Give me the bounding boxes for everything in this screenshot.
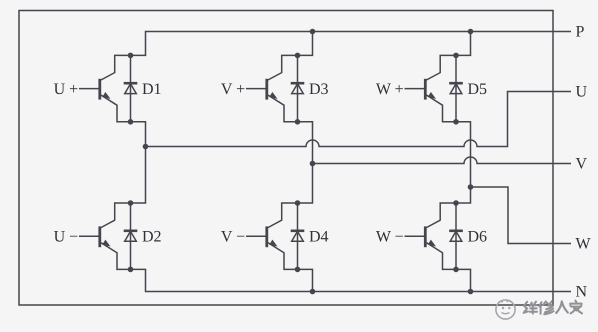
node: W output tap — [468, 184, 474, 190]
node: W+ collector junction — [453, 53, 459, 59]
wire: V- emitter to N rail — [298, 269, 313, 291]
svg-text:W: W — [576, 236, 592, 253]
wire: V output line with crossover hop, to V terminal — [313, 157, 572, 164]
watermark text: character 人 — [556, 301, 568, 313]
svg-text:D6: D6 — [468, 228, 488, 245]
node: U+ emitter junction — [128, 119, 134, 125]
node: V- to N rail — [310, 289, 316, 295]
svg-text:W −: W − — [376, 228, 404, 245]
node: V+ collector junction — [295, 53, 301, 59]
svg-text:W +: W + — [376, 81, 404, 98]
diode D2 (freewheel, cathode up) — [124, 203, 138, 269]
svg-text:D5: D5 — [468, 81, 488, 98]
node: V+ emitter junction — [295, 119, 301, 125]
wire: P rail (U+ collector to P terminal) — [131, 32, 572, 56]
node: V+ to P rail — [310, 29, 316, 35]
module outline box — [19, 11, 553, 306]
wire: W phase leg (W+ emitter to W- collector) — [456, 122, 471, 203]
svg-text:D1: D1 — [142, 81, 162, 98]
wire: U output line with crossover hops, to U terminal — [146, 92, 572, 147]
node: V output tap — [310, 161, 316, 167]
transistor QV- (V- IGBT) — [246, 203, 298, 269]
watermark text: character 维 — [524, 302, 537, 314]
node: W- to N rail — [468, 289, 474, 295]
wire: W+ collector to P rail — [456, 32, 471, 56]
diode D1 (freewheel, cathode up) — [124, 55, 138, 121]
svg-text:V: V — [576, 156, 588, 173]
transistor QV+ (V+ IGBT) — [246, 55, 298, 121]
transistor QW- (W- IGBT) — [405, 203, 457, 269]
transistor QW+ (W+ IGBT) — [405, 55, 457, 121]
wire: W output line to W terminal — [471, 187, 572, 244]
svg-text:D2: D2 — [142, 228, 162, 245]
wire: W- emitter to N rail — [456, 269, 471, 291]
diode D4 (freewheel, cathode up) — [291, 203, 305, 269]
diode D6 (freewheel, cathode up) — [449, 203, 463, 269]
emitter arrow QV+ — [269, 92, 277, 99]
diode D3 (freewheel, cathode up) — [291, 55, 305, 121]
transistor QU- (U- IGBT) — [79, 203, 131, 269]
node: U- collector junction — [128, 200, 134, 206]
node: W+ emitter junction — [453, 119, 459, 125]
watermark text: character 修 — [539, 301, 553, 314]
wire: U phase leg (U+ emitter to U- collector) — [131, 122, 146, 203]
watermark logo circle — [496, 300, 515, 319]
node: W- collector junction — [453, 200, 459, 206]
node: V- emitter junction — [295, 267, 301, 273]
wire: V phase leg (V+ emitter to V- collector) — [298, 122, 313, 203]
emitter arrow QU- — [102, 240, 110, 247]
node: U- emitter junction — [128, 267, 134, 273]
svg-text:P: P — [576, 24, 585, 41]
svg-text:D4: D4 — [309, 228, 329, 245]
emitter arrow QW- — [428, 240, 436, 247]
wire: V+ collector to P rail — [298, 32, 313, 56]
watermark text: character 家 — [570, 301, 582, 314]
node: U+ collector junction — [128, 53, 134, 59]
node: W+ to P rail — [468, 29, 474, 35]
svg-text:U: U — [576, 84, 588, 101]
node: W- emitter junction — [453, 267, 459, 273]
transistor QU+ (U+ IGBT) — [79, 55, 131, 121]
svg-text:V −: V − — [221, 228, 245, 245]
svg-text:U +: U + — [54, 81, 79, 98]
wire: N rail (U- emitter to N terminal) — [131, 269, 572, 291]
emitter arrow QV- — [269, 240, 277, 247]
svg-text:U −: U − — [54, 228, 79, 245]
node: U output tap — [143, 144, 149, 150]
emitter arrow QW+ — [428, 92, 436, 99]
svg-text:D3: D3 — [309, 81, 329, 98]
emitter arrow QU+ — [102, 92, 110, 99]
svg-text:V +: V + — [221, 81, 245, 98]
svg-text:N: N — [576, 284, 588, 301]
node: V- collector junction — [295, 200, 301, 206]
diode D5 (freewheel, cathode up) — [449, 55, 463, 121]
